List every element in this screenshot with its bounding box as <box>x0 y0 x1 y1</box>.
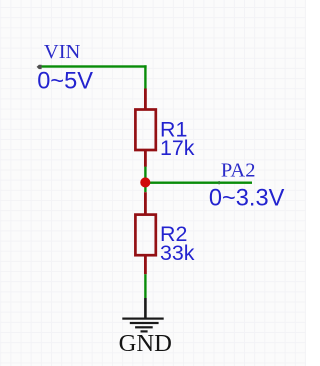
resistor R1 body <box>135 110 155 151</box>
wire VIN vertical <box>144 65 146 89</box>
resistor R1 pin 2 <box>144 150 147 167</box>
resistor R2 pin 1 <box>144 192 147 214</box>
svg-text:0~5V: 0~5V <box>37 68 93 94</box>
port arrow at VIN wire end <box>37 65 42 69</box>
svg-text:0~3.3V: 0~3.3V <box>209 185 285 211</box>
wire PA2 horizontal <box>145 182 252 184</box>
resistor R2 pin 2 <box>144 255 147 274</box>
resistor R1 pin 1 <box>144 89 147 111</box>
junction dot <box>140 177 150 187</box>
svg-text:17k: 17k <box>160 136 195 160</box>
svg-text:PA2: PA2 <box>221 159 256 181</box>
svg-text:VIN: VIN <box>44 41 81 63</box>
wire VIN horizontal <box>40 65 147 67</box>
svg-text:GND: GND <box>119 330 172 357</box>
wire vertex tick <box>218 181 220 184</box>
wire to ground <box>144 274 146 298</box>
ground symbol <box>122 298 163 333</box>
svg-text:33k: 33k <box>160 241 195 265</box>
resistor R2 body <box>135 215 155 256</box>
wire node vertical segment <box>144 167 146 193</box>
